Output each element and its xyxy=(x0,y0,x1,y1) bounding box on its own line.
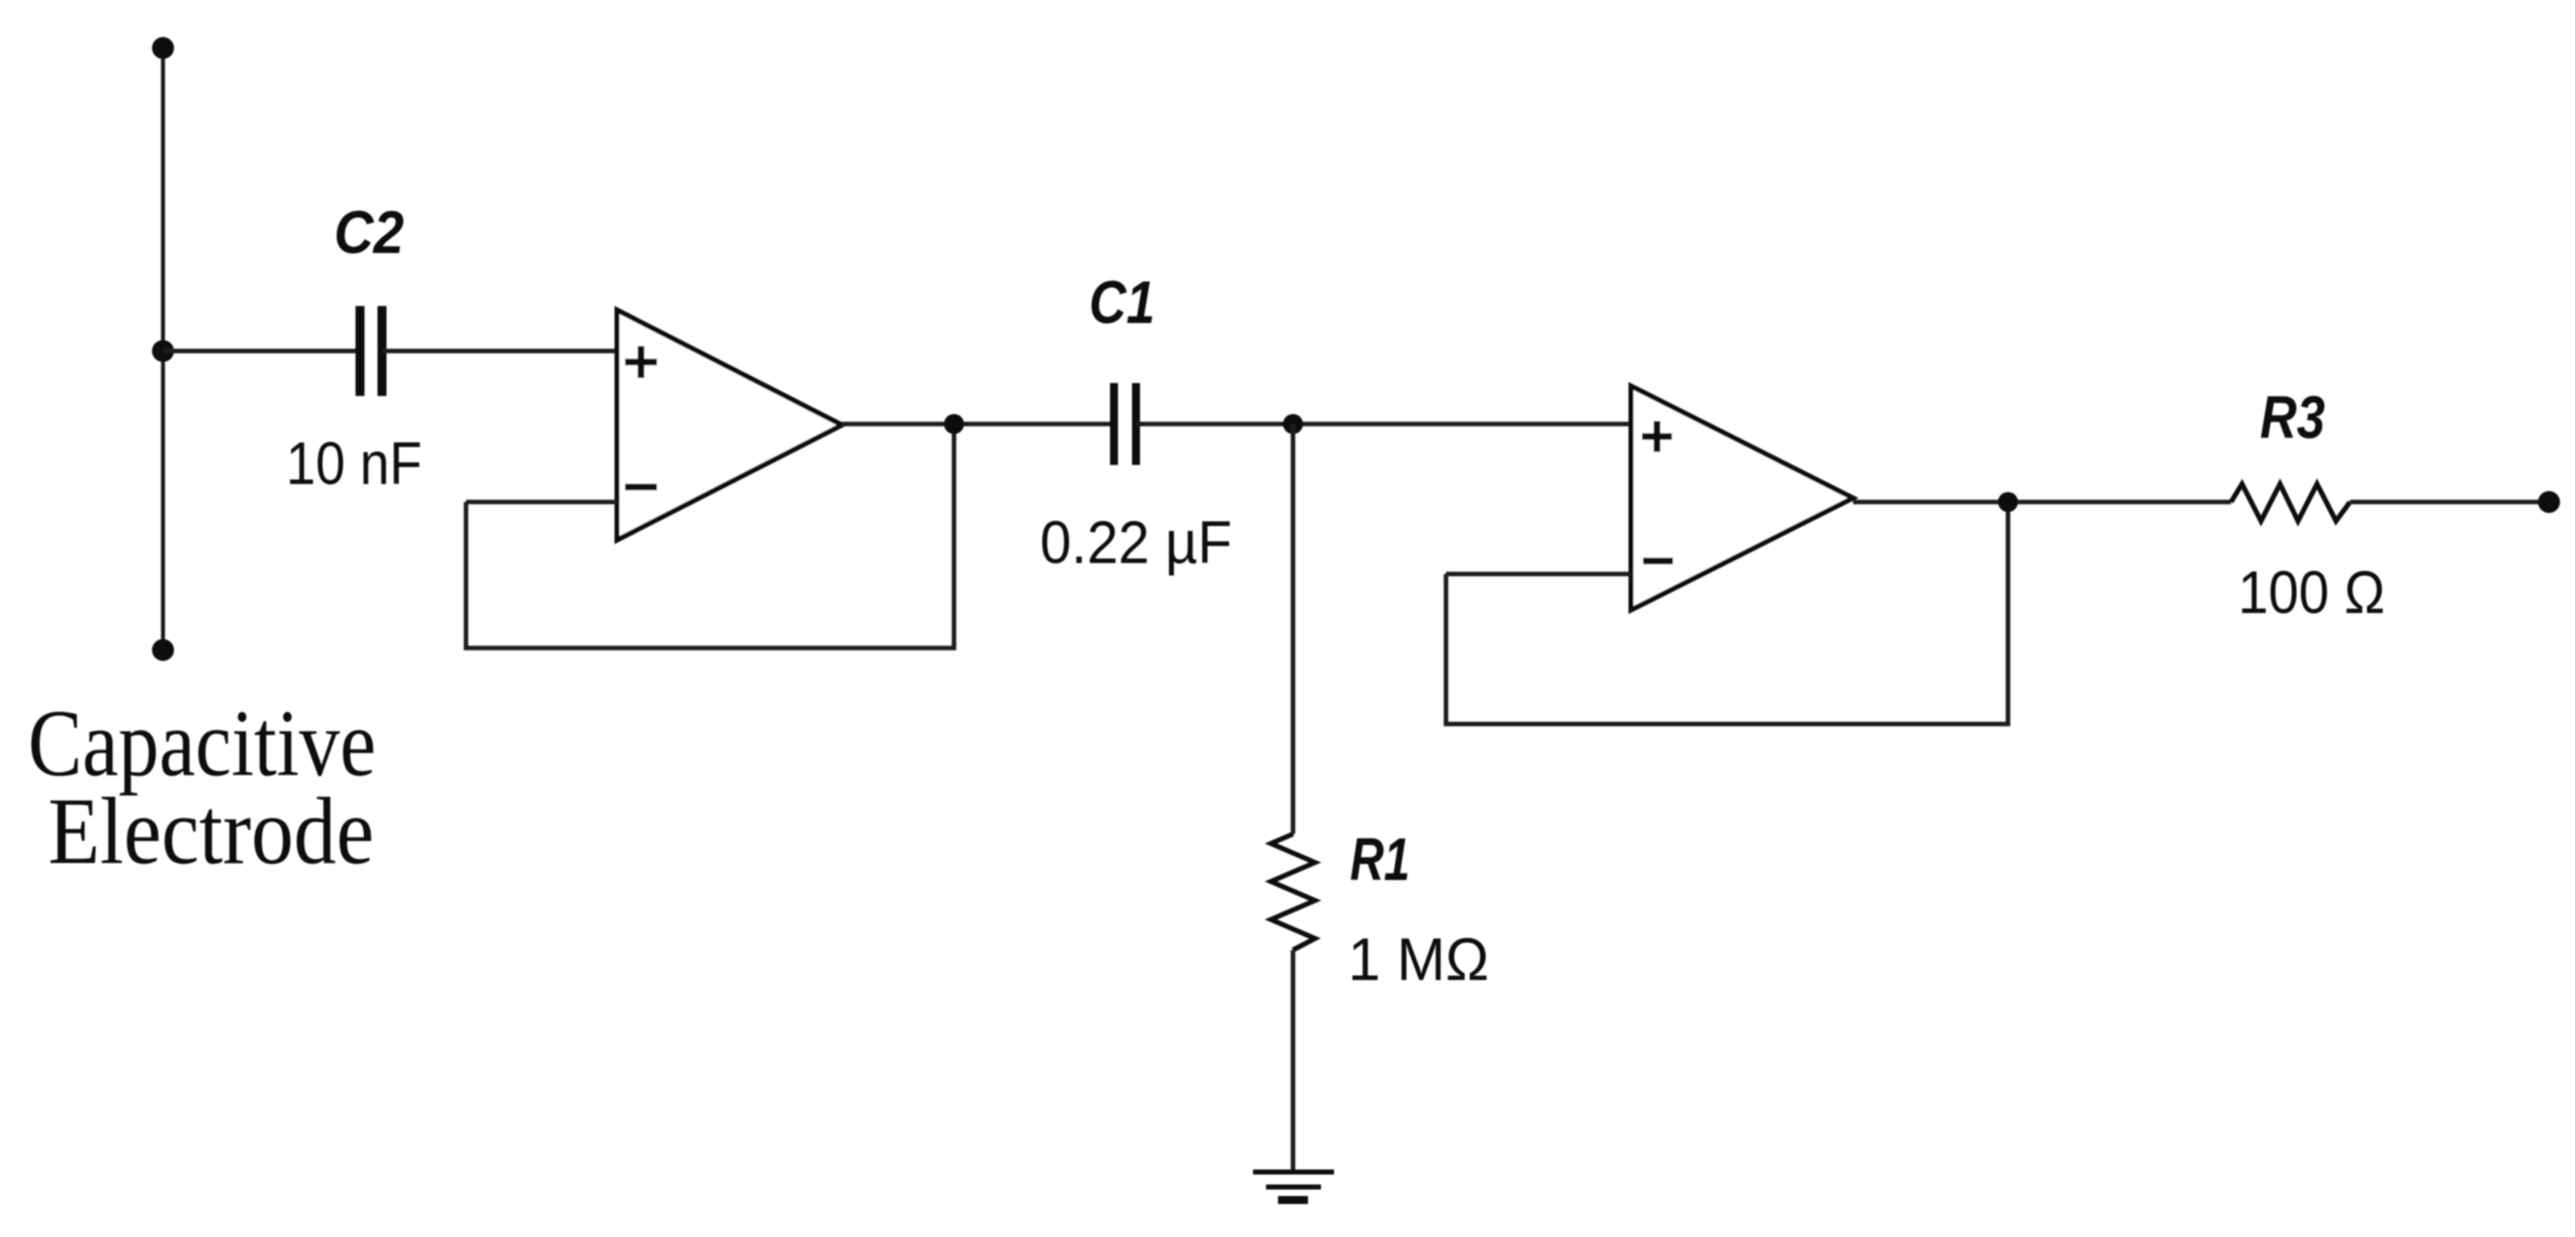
svg-text:0.22 µF: 0.22 µF xyxy=(1040,509,1232,576)
ground xyxy=(1253,1172,1334,1200)
wire: U2 feedback loop xyxy=(1446,502,2008,724)
wire: capacitive electrode vertical bus xyxy=(161,48,165,650)
svg-text:R3: R3 xyxy=(2260,384,2325,451)
wire: U1 inverting input stub xyxy=(466,500,617,505)
resistor R3 xyxy=(2231,484,2350,521)
svg-text:10 nF: 10 nF xyxy=(286,430,422,497)
node: electrode bottom terminal xyxy=(152,639,174,661)
svg-text:C2: C2 xyxy=(334,199,404,266)
wire: electrode to C2 left plate xyxy=(163,349,360,354)
resistor R1 xyxy=(1271,834,1315,950)
pin - of U1 xyxy=(625,484,657,491)
label Capacitive Electrode xyxy=(28,690,376,884)
node: R1 tap junction xyxy=(1283,414,1303,434)
wire: C2 right plate to op-amp U1 noninverting input xyxy=(382,349,617,354)
svg-text:100 Ω: 100 Ω xyxy=(2238,559,2385,626)
wire: R1 to ground xyxy=(1291,950,1296,1172)
wire: U1 output to C1 xyxy=(842,422,1114,427)
node: U1 output junction xyxy=(944,414,964,434)
svg-text:Electrode: Electrode xyxy=(48,778,374,884)
wire: U1 feedback loop xyxy=(466,424,954,648)
svg-text:1 MΩ: 1 MΩ xyxy=(1348,926,1489,993)
wire: junction down to R1 xyxy=(1291,424,1296,834)
wire: U2 output to R3 xyxy=(1853,500,2231,505)
node: output terminal xyxy=(2538,491,2560,513)
wire: R3 to output terminal xyxy=(2350,500,2549,505)
node: electrode tap junction xyxy=(152,340,174,362)
svg-text:R1: R1 xyxy=(1350,826,1410,893)
node: electrode top terminal xyxy=(152,37,174,59)
wire: U2 inverting input stub xyxy=(1446,572,1631,577)
capacitor C2 xyxy=(360,306,382,396)
pin + of U2 xyxy=(1642,421,1672,452)
capacitor C1 xyxy=(1114,383,1136,465)
wire: C1 to op-amp U2 noninverting input xyxy=(1136,422,1631,427)
pin + of U1 xyxy=(625,346,657,378)
op-amp U1 xyxy=(617,310,842,540)
op-amp U2 xyxy=(1631,386,1853,610)
svg-text:C1: C1 xyxy=(1089,269,1155,336)
pin - of U2 xyxy=(1643,558,1673,565)
node: U2 output junction xyxy=(1998,492,2018,512)
